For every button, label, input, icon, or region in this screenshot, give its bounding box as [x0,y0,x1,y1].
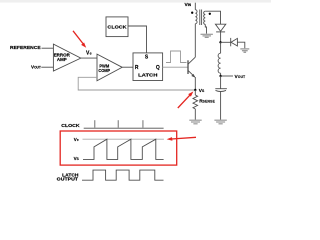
red arrow pointing into annotation box [167,137,196,141]
svg-text:Ve: Ve [74,137,79,142]
transformer T1 primary winding [195,10,197,24]
transformer phase dot primary [191,12,193,14]
wire error amp to PWM comp [81,57,97,59]
transformer T1 secondary winding [204,11,206,24]
comparator PWM COMP [97,54,122,81]
op-amp error amplifier [53,44,80,71]
red arrow pointing at Ve [73,31,86,48]
red arrow pointing at Vs node [178,91,194,108]
svg-text:LATCH: LATCH [138,73,157,78]
waveform CLOCK pulse 2 [117,120,119,128]
wire latch Q to transistor base [163,66,188,68]
ground (transformer secondary) [201,34,213,37]
svg-text:REFERENCE: REFERENCE [10,45,42,51]
wire clock to latch S [128,26,147,53]
node junction (D1 cathode) [219,41,221,43]
inductor L1 [220,42,222,53]
svg-text:CLOCK: CLOCK [107,24,127,29]
diode D1 (rectifier, pointing down) [215,24,225,42]
waveform CLOCK pulse 3 [142,120,144,128]
svg-text:VS: VS [74,156,79,161]
wire secondary top to diode D1 [205,11,220,24]
pulse waveform symbol above Q wire [166,51,187,63]
resistor RSENSE [193,90,198,120]
svg-text:OUTPUT: OUTPUT [57,177,79,182]
ground (diode D2) [240,49,249,52]
wire REFERENCE to error amp [42,47,54,49]
svg-text:Q: Q [156,65,160,71]
wire emitter to Vs node [194,77,196,90]
transformer core [199,10,201,26]
waveform Ve level line [83,138,164,140]
top scan band [0,0,271,3]
node Vs junction [194,89,196,91]
transistor Q1 (NPN) [188,57,195,77]
wire collector to transformer [194,24,196,58]
red annotation box [60,131,177,165]
wire VOUT to error amp [41,66,53,68]
clock block CLOCK [106,17,128,37]
svg-text:CLOCK: CLOCK [61,123,80,128]
wire PWM comp to latch R [122,66,133,68]
transformer phase dot secondary [209,13,211,15]
waveform Vs sawtooth trace [83,139,164,159]
wire feedback from Vs node to PWM comp input [78,77,195,90]
svg-text:AMP: AMP [57,57,67,62]
waveform CLOCK pulse 1 [94,120,96,128]
ground (capacitor C1) [214,120,226,124]
svg-text:COMP: COMP [98,68,110,73]
node VOUT junction [219,75,221,77]
wire secondary bottom to ground [205,24,206,33]
latch U1 [133,53,163,81]
waveform LATCH OUTPUT trace [82,170,164,180]
waveform CLOCK baseline [84,127,164,129]
wire node to diode D2 [221,41,231,43]
ground (RSENSE) [189,120,201,124]
capacitor C1 (output, polarized) [215,89,227,120]
svg-text:VOUT: VOUT [31,65,41,70]
diode D2 (freewheel, cathode left) [231,38,245,48]
wire to VOUT label [221,75,233,77]
svg-text:R: R [135,65,139,71]
wire VOUT node to capacitor [220,76,222,89]
wire VIN down to primary [194,3,196,10]
